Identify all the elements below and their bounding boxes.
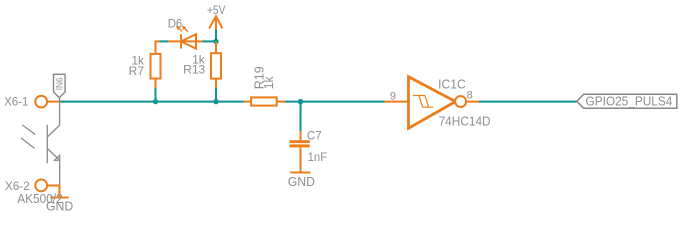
gate hysteresis symbol xyxy=(413,96,433,108)
transistor emitter xyxy=(47,149,59,161)
transistor Q (phototransistor, doc layer) collector wire xyxy=(47,98,59,137)
net flag GPIO25_PULS4 xyxy=(577,94,677,109)
svg-text:GND: GND xyxy=(288,175,315,189)
ground GND (X6-2) xyxy=(50,197,68,199)
svg-text:IC1C: IC1C xyxy=(438,76,466,91)
LED emission arrow 1 xyxy=(176,26,182,32)
resistor R13 xyxy=(211,41,221,88)
gate output bubble xyxy=(455,96,466,107)
node junction dot R13/main xyxy=(213,99,218,104)
svg-text:8: 8 xyxy=(467,90,473,102)
wire net R7 bottom vertical xyxy=(155,88,157,102)
wire net R13 bottom vertical xyxy=(215,88,217,102)
wire X6-2 to GND xyxy=(58,186,60,198)
light arrow 1 xyxy=(22,125,35,135)
svg-text:1nF: 1nF xyxy=(308,150,328,164)
wire corner R7 top orange xyxy=(155,40,160,44)
node junction dot +5V/LED xyxy=(213,39,218,44)
light arrow 2 xyxy=(21,138,34,148)
svg-text:X6-1: X6-1 xyxy=(4,95,29,109)
wire net IN6 main horizontal xyxy=(60,101,244,103)
svg-text:GPIO25_PULS4: GPIO25_PULS4 xyxy=(586,94,673,109)
svg-text:C7: C7 xyxy=(307,129,322,143)
gate output stub xyxy=(466,101,479,103)
node junction dot R7/main xyxy=(153,99,158,104)
svg-text:9: 9 xyxy=(390,90,396,102)
node junction dot C7/main xyxy=(298,99,303,104)
gate IC1C triangle xyxy=(409,77,456,129)
svg-text:IN6: IN6 xyxy=(55,77,65,90)
wire pin X6-1 stub xyxy=(48,101,60,103)
svg-text:D6: D6 xyxy=(168,16,183,30)
transistor emitter arrowhead xyxy=(55,155,60,160)
wire pin X6-2 stub xyxy=(48,185,60,187)
ground GND (C7) xyxy=(290,172,310,174)
svg-text:+5V: +5V xyxy=(207,3,225,17)
capacitor C7 xyxy=(290,131,310,173)
gate IC1C input stub xyxy=(385,101,409,103)
net label tag IN6 xyxy=(54,74,66,98)
svg-text:R7: R7 xyxy=(129,64,145,78)
svg-text:AK500/2: AK500/2 xyxy=(17,192,63,206)
svg-text:1k: 1k xyxy=(261,76,276,89)
resistor R19 xyxy=(244,97,286,105)
transistor base bar xyxy=(46,125,48,164)
wire net top LED row right teal xyxy=(203,40,217,42)
pin X6-1 xyxy=(35,96,47,108)
wire net from R19 to gate input xyxy=(285,101,385,103)
svg-text:74HC14D: 74HC14D xyxy=(439,114,491,129)
svg-text:R13: R13 xyxy=(183,63,205,77)
wire net top LED row left teal xyxy=(160,40,169,42)
LED emission arrow 2 xyxy=(182,26,188,32)
power +5V symbol xyxy=(209,16,222,29)
resistor R7 xyxy=(151,44,161,88)
diode D6 LED xyxy=(168,34,203,48)
wire net gate output to flag xyxy=(479,101,577,103)
transistor emitter wire down xyxy=(59,160,61,185)
wire net +5V vertical xyxy=(215,29,217,41)
pin X6-2 xyxy=(35,180,47,192)
wire net C7 branch vertical xyxy=(300,102,302,131)
